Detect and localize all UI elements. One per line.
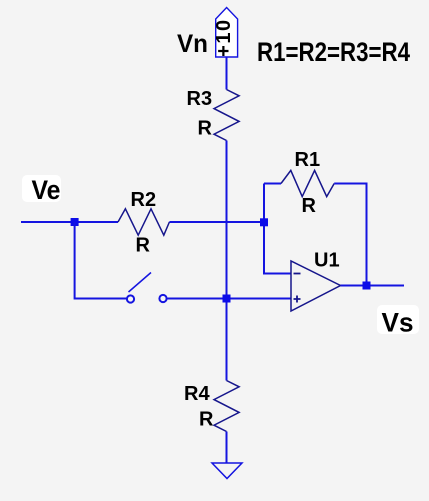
switch throw contact (159, 295, 166, 302)
switch lever (129, 273, 152, 293)
switch pole contact (127, 295, 134, 302)
svg-text:R2: R2 (131, 189, 157, 211)
junction node summing (260, 218, 268, 226)
voltage source V+10 body (216, 8, 238, 58)
svg-text:Ve: Ve (32, 175, 61, 205)
op-amp plus sign (294, 296, 301, 303)
wire feedback top left (264, 183, 281, 185)
resistor R2 (118, 209, 169, 235)
wire R4 to ground (226, 432, 228, 464)
svg-text:+10: +10 (213, 18, 235, 56)
wire R3 down main vertical (226, 141, 228, 299)
wire switch to op-amp plus input (167, 298, 291, 300)
svg-text:R1: R1 (295, 149, 321, 171)
svg-text:R3: R3 (187, 88, 213, 110)
svg-text:R4: R4 (184, 383, 210, 405)
junction node output (363, 282, 371, 290)
junction node main vertical with plus wire (223, 295, 231, 303)
op-amp U1 (291, 261, 341, 311)
svg-text:R: R (302, 195, 317, 217)
wire junction to R4 (226, 299, 228, 381)
resistor R4 (214, 381, 239, 432)
svg-text:Vn: Vn (177, 30, 208, 58)
wire feedback left vertical (264, 184, 291, 274)
svg-text:R1=R2=R3=R4: R1=R2=R3=R4 (257, 37, 410, 67)
wire source to R3 (226, 57, 228, 90)
wire output (341, 285, 405, 287)
svg-text:U1: U1 (314, 250, 340, 272)
svg-text:R: R (199, 409, 214, 431)
net label Vs background (377, 305, 419, 334)
wire Ve input (21, 221, 118, 223)
net label Ve background (22, 175, 61, 202)
resistor R1 (281, 170, 334, 196)
svg-text:R: R (198, 118, 213, 140)
ground (212, 463, 242, 479)
junction node Ve branch (71, 218, 79, 226)
wire feedback top right (334, 184, 366, 286)
op-amp minus sign (294, 273, 301, 275)
resistor R3 (214, 90, 239, 141)
wire Ve branch down (75, 222, 127, 299)
wire R2 to summing node (169, 221, 264, 223)
svg-text:R: R (136, 235, 151, 257)
svg-text:Vs: Vs (382, 308, 414, 338)
